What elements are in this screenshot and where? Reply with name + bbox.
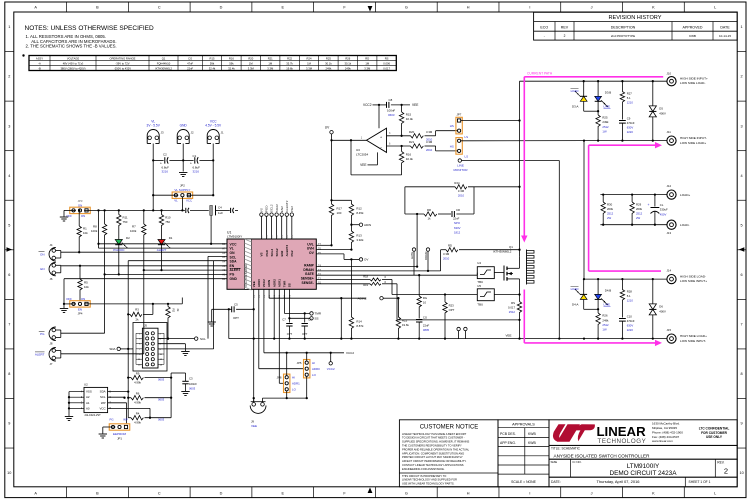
svg-text:22nF: 22nF [423,323,430,327]
wire J13 rail [600,224,666,226]
svg-text:SUPPLIED SPECIFICATIONS; HOWEV: SUPPLIED SPECIFICATIONS; HOWEVER, IT REM… [402,440,469,444]
svg-text:ISOLATION BARRIER: ISOLATION BARRIER [245,264,248,287]
heatsink for Q1 [527,250,535,285]
svg-text:K: K [652,6,655,10]
svg-text:OPT: OPT [287,332,293,336]
svg-text:GND: GND [230,277,238,281]
svg-text:ADR2: ADR2 [272,279,276,287]
svg-text:EN: EN [40,267,44,271]
resistor R8 [91,210,107,333]
svg-text:HS: HS [450,145,454,149]
svg-text:DRAIN: DRAIN [424,252,428,260]
wire U2 SCL pin [108,397,126,399]
svg-text:2W: 2W [607,216,612,220]
resistor RS [508,295,522,340]
wire TMR pin [284,289,321,315]
svg-text:IXTH30N60L2: IXTH30N60L2 [493,250,512,254]
svg-text:PCB DES.: PCB DES. [500,432,516,436]
wire SS pin [288,289,318,322]
svg-text:PG2: PG2 [290,206,294,212]
revision history table [534,12,738,40]
svg-text:LOW SIDE LOAD+: LOW SIDE LOAD+ [680,141,706,145]
op-amp U3 LTC2054 [356,128,391,156]
wire J2 stem [182,146,184,172]
svg-text:JP8: JP8 [277,376,282,380]
svg-text:LS: LS [465,154,469,158]
node sense kelvin terminals [457,327,467,338]
svg-text:SS: SS [287,283,291,287]
svg-text:R17: R17 [337,207,343,211]
wire current path down to Q1 [521,77,527,243]
svg-text:USE ONLY: USE ONLY [706,435,723,439]
svg-text:2: 2 [8,75,10,79]
svg-text:G: G [405,6,408,10]
node ADIN terminal [351,223,371,227]
wire JP2 right [187,194,215,196]
wire EN row [61,265,227,267]
svg-text:R16: R16 [229,56,234,60]
svg-text:2512: 2512 [636,212,643,216]
resistor R13 [349,225,364,251]
svg-text:OV: OV [309,251,315,255]
svg-text:R5: R5 [84,281,88,285]
connector J10 [667,72,708,86]
svg-text:A2: A2 [86,395,90,399]
svg-text:IXTH30N60L2: IXTH30N60L2 [155,66,173,70]
svg-text:3.3M: 3.3M [426,130,433,134]
svg-text:750: 750 [165,220,170,224]
resistor R9 [127,349,172,418]
svg-text:R13: R13 [356,234,362,238]
svg-text:R19: R19 [363,283,368,287]
svg-text:I: I [529,491,530,495]
assembly spec table [22,54,396,70]
connector J3 [147,119,164,145]
svg-text:Q1: Q1 [509,245,513,249]
svg-text:D5: D5 [659,107,663,111]
jumper JP7 line monitor [450,112,469,172]
svg-text:JP7: JP7 [457,112,462,116]
node U1 top terminals VS PGD SCL2 SDA2 EN2 ALERT2 PG2 [260,200,294,239]
svg-text:LINEAR: LINEAR [597,424,647,439]
svg-text:C8: C8 [389,98,393,102]
jumper JP5 ADR0 [297,353,320,399]
svg-text:R1: R1 [83,227,87,231]
svg-text:TBU: TBU [477,302,483,306]
resistor R17 [329,199,342,246]
svg-text:MONITOR: MONITOR [453,168,468,172]
svg-text:9: 9 [741,422,743,426]
svg-text:J4: J4 [50,243,53,247]
svg-text:4.99k: 4.99k [134,381,141,385]
svg-text:J3: J3 [161,131,164,135]
wire VL rail left end [64,209,76,211]
svg-text:4: 4 [8,174,10,178]
svg-text:3.92k: 3.92k [356,238,364,242]
svg-text:OPERATING RANGE: OPERATING RANGE [110,56,136,60]
wire J11 rail [584,140,667,142]
TBU U4 [477,261,494,284]
connector J1 [205,119,224,145]
svg-text:-B: -B [38,66,41,70]
svg-text:100k: 100k [91,229,98,233]
svg-text:R22: R22 [402,319,408,323]
svg-text:U5: U5 [477,284,481,288]
svg-text:J: J [591,491,593,495]
wire RAMP bus [316,265,418,267]
wire VEE rail [229,333,667,339]
svg-text:A: A [34,6,37,10]
svg-text:470nF: 470nF [627,319,635,323]
wire VEE pin down [253,289,255,401]
TBU U5 [477,284,494,306]
svg-text:DEMO CIRCUIT 2423A: DEMO CIRCUIT 2423A [609,470,677,477]
wire VL rail [84,209,185,211]
svg-text:59k: 59k [229,61,234,65]
svg-text:DESCRIPTION: DESCRIPTION [611,25,636,29]
connector J2 [177,124,194,146]
wire JP7 LS to J11 rail [461,140,584,142]
svg-text:SENSE-: SENSE- [302,281,314,285]
resistor R20 [387,130,458,142]
IC U2 EEPROM 24LC024-I/ST [69,383,112,417]
svg-text:ADR0: ADR0 [312,367,320,371]
svg-text:JP4: JP4 [78,312,83,316]
svg-text:10k: 10k [84,285,89,289]
wire drain top rail [520,80,667,82]
wire RAMP to RR [416,214,418,267]
svg-text:+: + [380,135,382,139]
svg-text:1210: 1210 [627,299,634,303]
svg-text:REV: REV [561,25,569,29]
resistor R21 [387,140,458,152]
wire VCC bus [97,210,227,248]
svg-text:PG: PG [109,418,113,422]
svg-text:R27: R27 [627,91,633,95]
LED D3:B blue LINE [595,81,612,111]
svg-text:APP ENG.: APP ENG. [500,441,516,445]
svg-text:I: I [529,6,530,10]
svg-text:SS: SS [315,317,319,321]
svg-text:VS: VS [260,252,264,256]
svg-text:RD: RD [448,244,452,248]
wire U2 SDA pin [108,390,130,392]
svg-text:R6: R6 [136,392,140,396]
svg-text:JP1: JP1 [117,436,122,440]
svg-text:LOW SIDE INPUT+: LOW SIDE INPUT+ [680,279,707,283]
ground JP1 [99,427,116,438]
wire J9 row [263,398,307,402]
svg-text:VCC2: VCC2 [327,367,335,371]
svg-text:380V (260V to 420V): 380V (260V to 420V) [60,66,85,70]
wire VCC2 supply row [363,103,386,128]
svg-text:J5: J5 [144,324,147,328]
svg-text:3.3M: 3.3M [267,66,274,70]
svg-text:J1: J1 [221,131,224,135]
svg-text:CG: CG [188,56,192,60]
svg-text:RS: RS [511,301,515,305]
wire GND bus [64,278,227,280]
wire OV bus [316,254,352,261]
svg-text:SCL: SCL [100,395,106,399]
svg-text:24LC024-I/ST: 24LC024-I/ST [85,413,102,417]
svg-text:1W: 1W [602,129,607,133]
svg-text:100nF: 100nF [189,382,197,386]
svg-text:D3:A: D3:A [572,104,578,108]
svg-text:10: 10 [423,300,427,304]
capacitor C6 [302,313,313,338]
svg-text:R26: R26 [345,56,350,60]
connector J12 [667,184,691,199]
svg-text:5: 5 [741,223,743,227]
svg-text:TO DESIGN A CIRCUIT THAT MEETS: TO DESIGN A CIRCUIT THAT MEETS CUSTOMER … [402,436,465,440]
svg-text:NOTES: UNLESS OTHERWISE SPECI: NOTES: UNLESS OTHERWISE SPECIFIED [25,25,154,32]
capacitor CR [452,208,474,235]
svg-text:2010: 2010 [458,193,465,197]
svg-text:WP: WP [101,401,106,405]
connector J9 VEE [250,397,266,428]
svg-text:249k: 249k [602,120,609,124]
svg-text:TECHNOLOGY: TECHNOLOGY [598,438,647,445]
svg-text:EN2: EN2 [280,206,284,212]
jumper JP2 VL SUPPLY [172,184,193,203]
svg-text:VL: VL [174,199,178,203]
svg-text:4.5V - 5.5V: 4.5V - 5.5V [205,124,222,128]
svg-text:PROPER AND RELIABLE OPERATION: PROPER AND RELIABLE OPERATION IN THE ACT… [402,447,470,451]
svg-text:LOAD+: LOAD+ [680,193,690,197]
LED D4:B blue LINE [595,279,612,309]
svg-text:HIGH SIDE INPUT+: HIGH SIDE INPUT+ [680,76,708,80]
svg-text:R18: R18 [363,274,368,278]
svg-text:K: K [652,491,655,495]
svg-text:5: 5 [8,223,10,227]
svg-text:VS: VS [260,208,264,212]
svg-text:J10: J10 [667,72,672,76]
wire SDA bus [127,261,227,350]
svg-text:ON: ON [40,252,45,256]
Linear Technology logo [549,420,737,446]
resistor R6 [127,392,172,405]
svg-text:ALERT2: ALERT2 [285,245,289,257]
svg-text:PG: PG [40,332,45,336]
svg-text:330uF: 330uF [660,208,668,212]
resistor R12 [332,200,365,226]
resistor R4 [128,412,171,425]
svg-text:OV: OV [364,258,368,262]
svg-text:249k: 249k [345,66,351,70]
wire JP2 center to rail [181,197,183,212]
wire U2 WP pin [108,403,127,424]
svg-text:APPLICATION. COMPONENT SUBSTI: APPLICATION. COMPONENT SUBSTITUTION AND [402,451,464,455]
svg-text:3: 3 [741,124,743,128]
svg-text:Q1: Q1 [162,56,166,60]
connector J6 EN [40,262,60,281]
svg-text:VEE: VEE [251,424,257,428]
wire ALERT bus [144,269,227,271]
svg-text:3.3M: 3.3M [306,66,313,70]
svg-text:G: G [405,491,408,495]
svg-text:B: B [96,6,99,10]
svg-text:0603: 0603 [189,387,196,391]
svg-text:32.4k: 32.4k [228,66,235,70]
svg-text:THE CUSTOMERS RESPONSIBILITY T: THE CUSTOMERS RESPONSIBILITY TO VERIFY [402,444,462,448]
svg-text:WP: WP [123,418,128,422]
svg-text:22nF: 22nF [453,217,460,221]
svg-text:10-14-15: 10-14-15 [719,34,731,38]
svg-text:SCL2: SCL2 [270,204,274,212]
svg-text:D4:A: D4:A [572,303,578,307]
svg-text:SCL: SCL [200,337,206,341]
resistor R14 [349,259,364,339]
svg-text:ADIN: ADIN [364,223,371,227]
svg-text:D3:B: D3:B [605,90,611,94]
svg-text:249k: 249k [325,66,331,70]
svg-text:30.1k: 30.1k [325,61,332,65]
resistor R30 [601,195,614,226]
wire J14 rail [583,278,667,280]
svg-text:R25: R25 [326,56,331,60]
svg-text:1uF: 1uF [218,211,223,215]
wire ADR0 pin [259,289,303,368]
svg-text:59k: 59k [210,61,215,65]
svg-text:47nF: 47nF [187,61,193,65]
wire J12 rail [600,193,666,195]
svg-text:C1: C1 [193,154,197,158]
svg-text:3: 3 [8,124,10,128]
svg-text:22nF: 22nF [187,66,193,70]
svg-text:ON: ON [81,214,85,218]
svg-text:HIGH SIDE LOAD-: HIGH SIDE LOAD- [680,274,706,278]
svg-text:REV.: REV. [717,460,724,464]
svg-text:EN2: EN2 [280,250,284,256]
svg-text:FQH44N10: FQH44N10 [157,61,171,65]
svg-text:RD: RD [365,56,369,60]
svg-text:LOW SIDE LOAD-: LOW SIDE LOAD- [680,81,705,85]
svg-text:VCC: VCC [186,199,192,203]
svg-text:2010: 2010 [426,148,433,152]
capacitor C10 [619,314,635,338]
capacitor C7 [282,318,292,339]
svg-text:VEE: VEE [360,163,366,167]
svg-text:DATE:: DATE: [551,480,561,484]
svg-text:R25: R25 [602,116,608,120]
svg-text:SDA2: SDA2 [275,248,279,256]
svg-text:3.3M: 3.3M [426,140,433,144]
svg-text:B: B [96,491,99,495]
wire Q1 drain up [519,81,521,256]
svg-text:U4: U4 [477,261,481,265]
svg-text:R10: R10 [165,216,171,220]
svg-text:J11: J11 [667,130,672,134]
svg-text:SCALE = NONE: SCALE = NONE [511,480,537,484]
connector J7 ALERT [35,348,61,367]
svg-text:VEE: VEE [505,333,511,337]
svg-text:TMR: TMR [315,312,322,316]
resistor RD [441,244,521,271]
resistor R5 [78,266,89,301]
svg-text:C5: C5 [234,303,238,307]
connector J14 [667,269,708,284]
svg-text:R20: R20 [409,130,415,134]
svg-text:ADR1: ADR1 [277,279,281,287]
svg-text:ALERT2: ALERT2 [285,200,289,212]
svg-text:R16: R16 [406,152,412,156]
svg-text:RS: RS [385,56,389,60]
resistor R25 [596,111,609,142]
svg-text:3.3M: 3.3M [458,189,465,193]
jumper JP1 EEPROM [109,418,130,441]
wire SCL bus [208,256,227,338]
svg-text:8: 8 [741,372,743,376]
svg-text:J15: J15 [667,328,672,332]
connector J11 [667,130,707,145]
ground JP4 [60,279,68,313]
capacitor C9 [619,116,635,141]
svg-text:400V: 400V [659,111,666,115]
svg-text:SIZE: SIZE [551,460,558,464]
resistor R19 [316,280,520,321]
svg-text:R11: R11 [123,216,128,220]
svg-text:LOAD: LOAD [571,287,579,291]
resistor R18 [316,274,477,294]
wire ALERT to J7 [61,353,144,355]
resistor RR [405,208,451,221]
svg-text:0.017: 0.017 [508,306,515,310]
svg-text:3.3M: 3.3M [443,252,450,256]
jumper JP4 EN [66,297,90,316]
svg-text:J13: J13 [667,231,672,235]
svg-text:AFFECT CIRCUIT PERFORMANCE OR: AFFECT CIRCUIT PERFORMANCE OR RELIABILIT… [402,459,467,463]
svg-text:400V: 400V [659,309,666,313]
transistor Q1 [493,245,520,295]
svg-text:3.3M: 3.3M [364,66,371,70]
jumper JP3 ON/OFF [66,199,90,218]
svg-text:2. THE SCHEMATIC SHOWS THE -B: 2. THE SCHEMATIC SHOWS THE -B VALUES. [26,44,117,49]
svg-text:100nF: 100nF [387,109,395,113]
svg-text:0603: 0603 [158,378,165,382]
svg-text:7: 7 [741,323,743,327]
svg-text:2: 2 [724,466,728,475]
svg-text:C10: C10 [627,314,633,318]
wire UVH bus [316,249,351,251]
svg-text:4.99k: 4.99k [134,421,141,425]
svg-text:630V: 630V [627,126,634,130]
svg-text:LOAD-: LOAD- [680,223,689,227]
svg-text:OPT: OPT [233,316,239,320]
svg-text:OPT: OPT [449,308,455,312]
node VCC2 terminal [327,353,335,371]
svg-text:THIS CIRCUIT IS PROPRIETARY TO: THIS CIRCUIT IS PROPRIETARY TO [402,474,446,478]
svg-text:A0: A0 [86,406,90,410]
notes text [25,25,154,49]
resistor R27 [620,81,633,119]
svg-text:GATE: GATE [410,252,414,259]
svg-text:VCC2: VCC2 [262,279,266,287]
wire ON row [61,251,227,253]
node CURRENT PATH label [527,71,553,75]
svg-text:PGOOD: PGOOD [113,248,125,252]
svg-text:2: 2 [564,34,566,38]
svg-text:PG2: PG2 [290,250,294,256]
node SDA terminal [109,347,213,351]
resistor R3 [127,304,153,322]
wire VL bus [99,247,228,249]
connector J8 PG [39,327,61,346]
wire GATE bus [316,274,477,276]
wire op-amp output [332,139,367,141]
svg-text:LTM9100IY: LTM9100IY [627,463,660,470]
svg-text:R28: R28 [627,289,633,293]
